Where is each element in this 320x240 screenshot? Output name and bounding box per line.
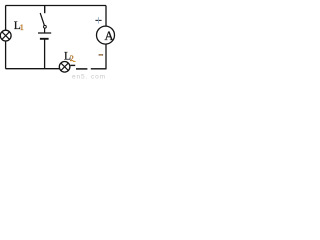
wire ammeter-down (105, 44, 107, 69)
wire bottom-left (6, 68, 60, 70)
ammeter A circle (97, 26, 115, 44)
switch S stub (44, 6, 46, 14)
minus sign (99, 54, 104, 56)
wire top (6, 5, 107, 7)
wire left (5, 6, 7, 69)
wire battery-down (44, 39, 46, 69)
lamp L1 (0, 30, 11, 41)
plus sign (95, 19, 101, 21)
switch S lower stub (44, 28, 46, 33)
switch S blade (40, 13, 44, 26)
artifact dash (73, 60, 76, 62)
wire right (105, 6, 107, 27)
lamp L2 (59, 62, 70, 73)
battery long plate (38, 32, 51, 34)
wire dash mid (76, 68, 87, 70)
wire dash lamp lead (70, 64, 75, 66)
wire bottom-right (91, 68, 107, 70)
svg-text:1: 1 (20, 23, 24, 32)
svg-text:en5. com: en5. com (72, 73, 106, 79)
svg-text:A: A (105, 29, 114, 43)
battery short plate (40, 38, 49, 40)
switch S pivot (44, 25, 47, 28)
